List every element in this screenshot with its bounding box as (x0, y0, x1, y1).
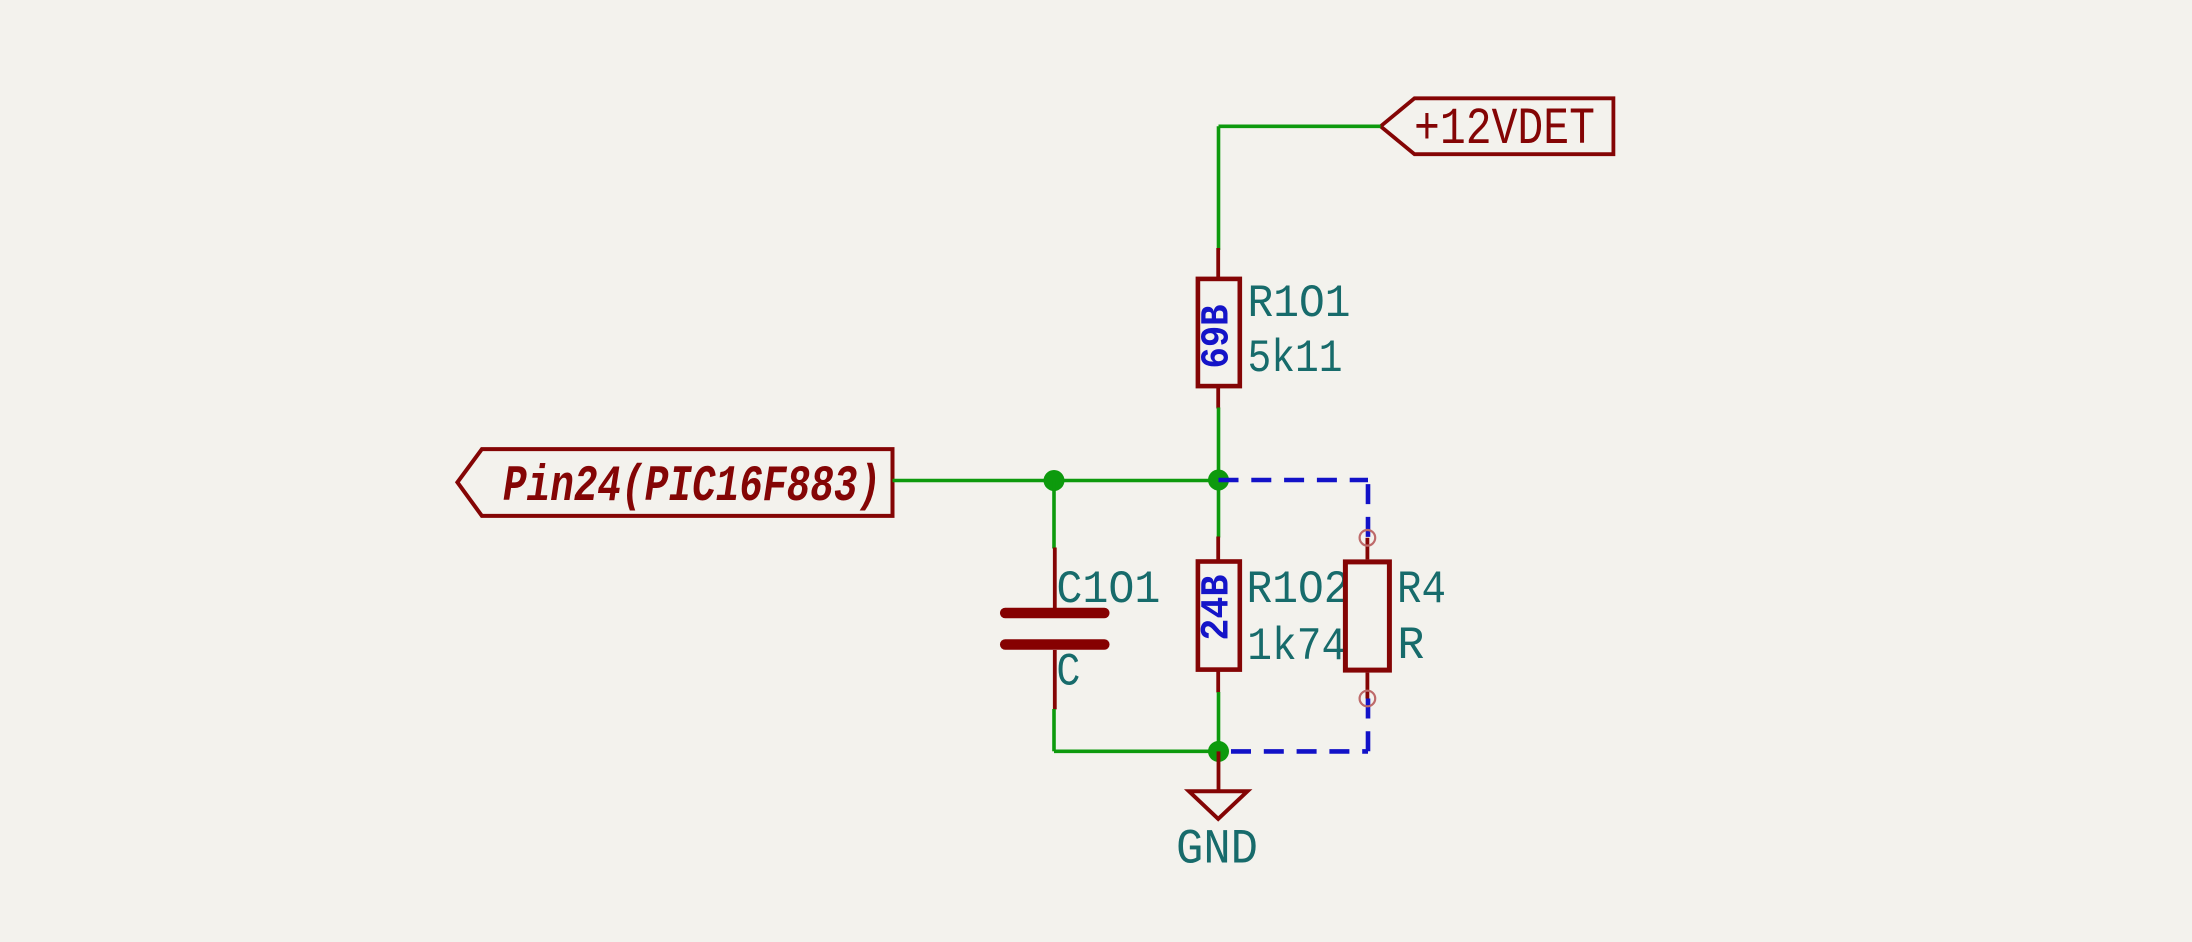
svg-text:R1O1: R1O1 (1248, 278, 1351, 330)
svg-text:C: C (1056, 647, 1080, 699)
hierarchical label Pin24(PIC16F883) (457, 449, 892, 516)
svg-text:69B: 69B (1196, 305, 1241, 369)
svg-text:R4: R4 (1397, 564, 1446, 616)
svg-text:5k11: 5k11 (1248, 333, 1343, 385)
pin circle R4 top (1360, 530, 1376, 546)
power symbol GND (1189, 751, 1247, 819)
wire capacitor bottom (1052, 709, 1056, 751)
wire R101 to junction B (1217, 408, 1221, 481)
resistor R101 (1196, 248, 1241, 409)
wire from +12VDET vertical (1217, 126, 1221, 250)
dashed wire bottom vertical (1366, 699, 1371, 752)
svg-text:R1O2: R1O2 (1247, 564, 1350, 616)
svg-text:R: R (1397, 620, 1424, 672)
junction B (divider tap) (1208, 470, 1229, 491)
wire capacitor top (1052, 481, 1056, 549)
junction C (bottom) (1208, 741, 1229, 762)
dashed wire top horizontal (1219, 478, 1369, 483)
svg-text:Pin24(PIC16F883): Pin24(PIC16F883) (503, 459, 881, 516)
svg-text:24B: 24B (1196, 575, 1241, 641)
wire bottom horizontal (1054, 749, 1219, 753)
wire junction B to R102 (1217, 480, 1221, 538)
dashed wire bottom horizontal (1219, 749, 1369, 754)
capacitor C101 (1005, 548, 1104, 710)
dashed wire top vertical (1366, 480, 1371, 538)
wire R102 to junction C (1217, 692, 1221, 751)
pin circle R4 bottom (1360, 691, 1376, 707)
svg-text:1k74: 1k74 (1247, 621, 1346, 673)
junction A (capacitor branch) (1044, 470, 1065, 491)
resistor R4 (1345, 530, 1389, 706)
net label +12VDET (1381, 98, 1614, 159)
svg-text:+12VDET: +12VDET (1414, 100, 1595, 159)
wire from +12VDET horizontal (1219, 125, 1381, 129)
resistor R102 (1196, 537, 1241, 693)
svg-text:C1O1: C1O1 (1056, 564, 1160, 616)
svg-text:GND: GND (1176, 821, 1258, 877)
wire Pin24 horizontal (893, 479, 1219, 483)
